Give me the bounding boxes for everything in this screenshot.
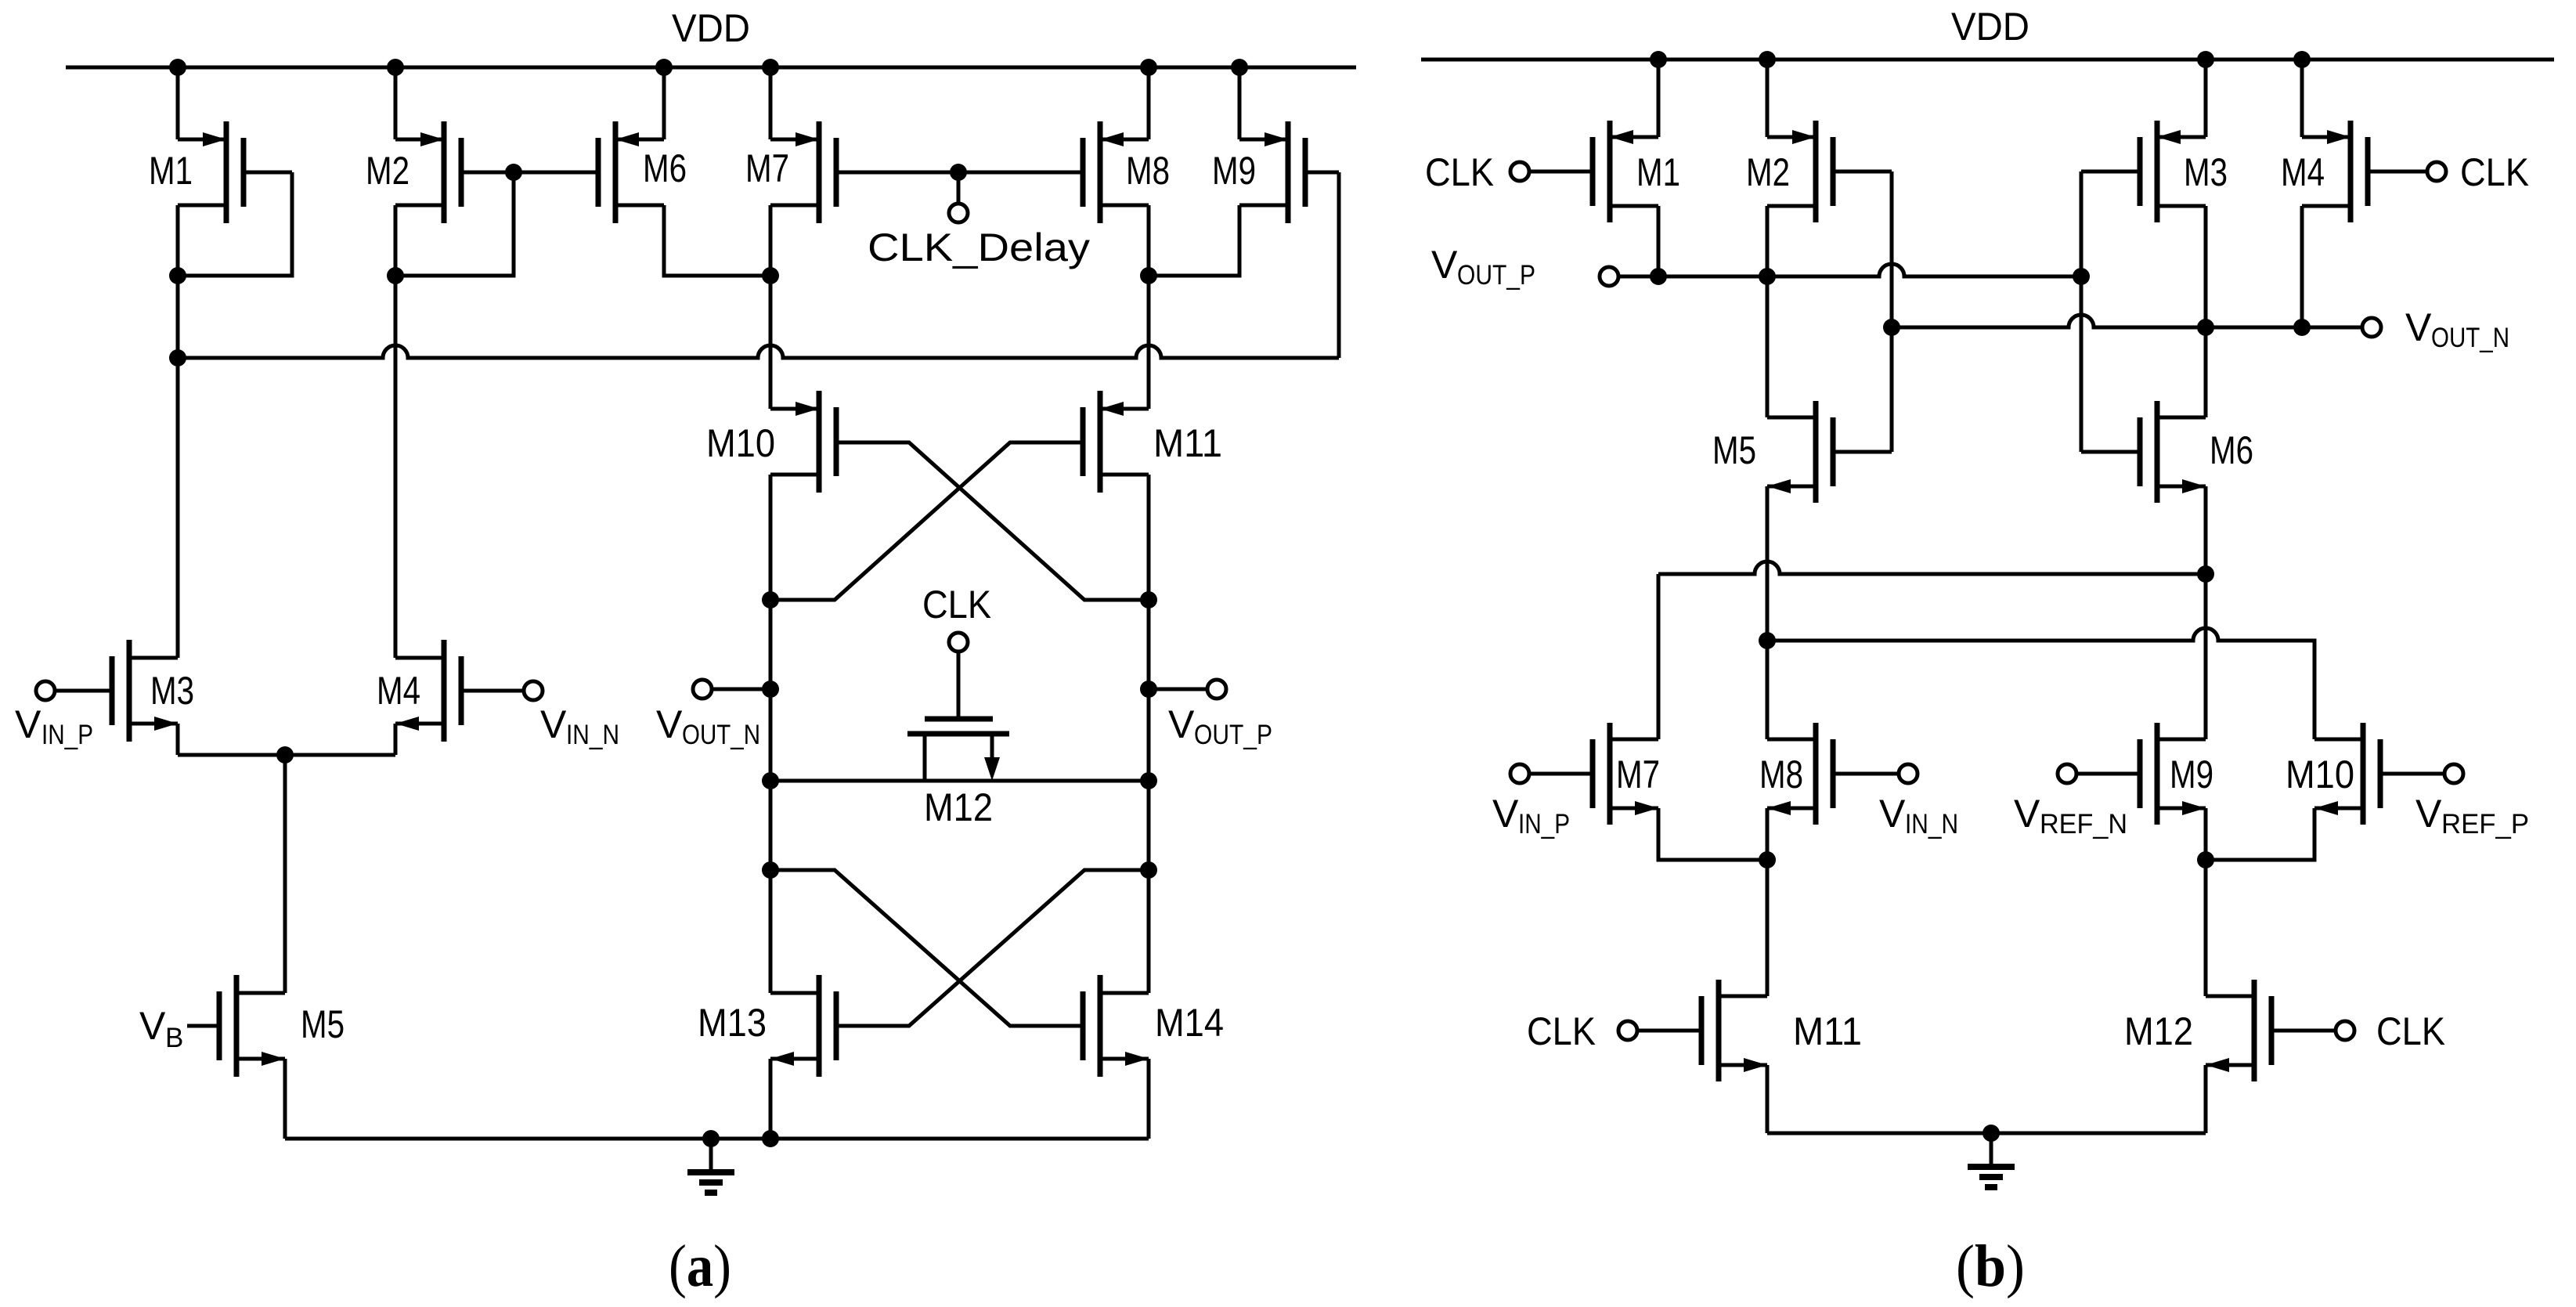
wire M8 gate lead (b): [1833, 772, 1899, 776]
wire M9 source (b): [2204, 808, 2208, 860]
wire M14 source: [1147, 1059, 1151, 1139]
transistor M14 (a) NMOS: [1083, 975, 1149, 1077]
transistor M3 (b) PMOS: [2140, 121, 2206, 222]
svg-text:CLK: CLK: [1425, 150, 1494, 194]
svg-text:M10: M10: [2286, 753, 2354, 796]
junction VDD/M8 (a): [1140, 59, 1157, 76]
junction ground tap (a): [702, 1130, 720, 1147]
wire M4 gate lead: [461, 689, 524, 693]
wire VDD to M6 source (a): [662, 67, 666, 139]
junction M2 drain (a): [387, 267, 404, 284]
svg-text:M8: M8: [1126, 149, 1170, 193]
label VOUT_N (b): [2405, 305, 2509, 353]
junction VDD/M4 (b): [2293, 51, 2311, 68]
svg-text:V: V: [1431, 243, 1458, 287]
label VIN_P (a): [15, 702, 93, 750]
junction M6/M7 drain (a): [762, 267, 779, 284]
svg-text:M3: M3: [2184, 150, 2228, 194]
terminal VIN_N (a): [524, 681, 543, 700]
wire M11 source (b): [1766, 1065, 1770, 1133]
wire M2 drain (b): [1766, 206, 1770, 276]
svg-text:IN_N: IN_N: [1905, 809, 1958, 839]
wire M3 drain to bus: [176, 358, 180, 658]
junction M2 drain/VOUT_P (b): [1759, 268, 1776, 285]
wire VDD to M7 source (a): [769, 67, 773, 139]
svg-text:M5: M5: [301, 1002, 345, 1046]
svg-text:M8: M8: [1759, 753, 1803, 796]
junction VDD/M1 (b): [1650, 51, 1667, 68]
wire M1 drain to bus: [176, 276, 180, 358]
wire M13 gate cross-couple: [836, 870, 1149, 1026]
transistor M10 (a) PMOS: [770, 391, 836, 493]
wire VDD rail (a): [66, 66, 1356, 70]
svg-text:M1: M1: [149, 149, 193, 193]
terminal VIN_N (b): [1899, 764, 1918, 783]
wire M6 gate lead: [514, 171, 598, 175]
wire ground rail (a): [285, 1137, 1149, 1141]
svg-text:VDD: VDD: [1951, 5, 2029, 49]
wire M5 source to M8 drain (b): [1766, 486, 1770, 739]
transistor M9 (b) NMOS: [2140, 723, 2206, 825]
junction tail2 (b): [2197, 851, 2214, 868]
junction M4 drain/VOUT_N (b): [2293, 319, 2311, 336]
svg-text:REF_P: REF_P: [2441, 809, 2529, 839]
wire M9 gate to bus: [1337, 172, 1341, 358]
svg-text:REF_N: REF_N: [2040, 809, 2127, 839]
junction VDD/M2 (a): [387, 59, 404, 76]
wire M6 source to M9 drain (b): [2204, 486, 2208, 739]
transistor M7 (a) PMOS: [770, 121, 836, 223]
junction bus/M1 column (a): [169, 349, 186, 366]
junction M8/M9 drain (a): [1140, 267, 1157, 284]
wire M5 drain: [283, 755, 287, 993]
wire M1 drain: [176, 205, 180, 276]
junction VDD/M7 (a): [762, 59, 779, 76]
wire M2 drain: [394, 205, 398, 276]
wire M10 gate cross-couple: [836, 442, 1149, 600]
svg-text:OUT_P: OUT_P: [1194, 720, 1272, 750]
svg-text:OUT_N: OUT_N: [682, 720, 760, 750]
terminal VREF_P (b): [2444, 764, 2463, 783]
terminal CLK M11 (b): [1618, 1021, 1637, 1040]
terminal VIN_P (a): [36, 681, 55, 700]
transistor M6 (a) PMOS: [598, 121, 664, 223]
terminal CLK M4 (b): [2427, 162, 2446, 181]
transistor M6 (b) NMOS: [2140, 401, 2206, 503]
svg-text:CLK: CLK: [2376, 1009, 2445, 1053]
junction M13 source/ground (a): [762, 1130, 779, 1147]
ground symbol (a): [687, 1139, 734, 1193]
svg-text:OUT_N: OUT_N: [2431, 323, 2509, 353]
wire M12 rail (a): [770, 779, 1149, 783]
transistor M12 (a) NMOS equalizer: [907, 719, 1009, 781]
wire M1 gate-drain diode tie: [178, 172, 292, 276]
wire Di+ line M7 drain to M6 source (b): [1658, 561, 2206, 574]
terminal VREF_N (b): [2058, 764, 2076, 783]
transistor M8 (a) PMOS: [1083, 121, 1149, 223]
svg-text:V: V: [15, 702, 41, 746]
wire M3 gate lead: [55, 689, 112, 693]
wire M4 source to tail: [394, 724, 398, 755]
svg-text:(b): (b): [1956, 1233, 2025, 1299]
wire VOUT_N net (b): [1892, 315, 2362, 327]
wire VDD to M1 source (a): [176, 67, 180, 139]
svg-text:IN_N: IN_N: [566, 720, 619, 750]
junction M11 drain latch node: [1140, 591, 1157, 608]
svg-text:M9: M9: [2170, 753, 2213, 796]
svg-text:IN_P: IN_P: [1518, 809, 1570, 839]
wire M1 gate lead (b): [1529, 170, 1593, 174]
label VOUT_N (a): [656, 702, 760, 750]
label VIN_N (a): [540, 702, 619, 750]
wire M12 gate lead (b): [2271, 1029, 2336, 1033]
transistor M1 (b) PMOS: [1593, 121, 1658, 222]
wire M9 drain: [1149, 205, 1239, 276]
transistor M1 (a) PMOS: [178, 121, 244, 223]
junction VOUT_N (a): [762, 681, 779, 698]
transistor M10 (b) NMOS: [2314, 723, 2380, 825]
wire M4 gate lead (b): [2368, 170, 2427, 174]
svg-text:M7: M7: [745, 146, 789, 190]
svg-text:M2: M2: [366, 149, 409, 193]
wire VOUT_P net (b): [1618, 264, 2081, 276]
wire M1 drain (b): [1657, 206, 1661, 276]
svg-text:V: V: [2014, 792, 2040, 836]
svg-text:(a): (a): [669, 1233, 731, 1299]
svg-text:M14: M14: [1155, 1001, 1224, 1045]
junction VOUT_P/M3-M6 gates (b): [2073, 268, 2090, 285]
junction CLK_Delay tap: [950, 164, 967, 181]
terminal CLK M12 (b): [2336, 1021, 2354, 1040]
wire M7/M8 gate tie: [836, 171, 1083, 175]
wire VOUT_P tap (a): [1149, 688, 1207, 691]
wire tail1 to M11 drain (b): [1766, 860, 1770, 996]
wire VOUT_N tap (a): [712, 688, 770, 691]
wire VOUT_P column (a): [1147, 600, 1151, 993]
wire VDD to M8 source (a): [1147, 67, 1151, 139]
wire M6 drain: [664, 205, 770, 276]
wire CLK stem (a): [957, 652, 961, 719]
wire M2 gate lead (b): [1833, 170, 1892, 174]
wire M3 drain (b): [2204, 206, 2208, 327]
junction M1 drain (a): [169, 267, 186, 284]
svg-text:M5: M5: [1712, 428, 1756, 472]
junction ground tap (b): [1983, 1125, 2000, 1142]
junction VDD/M1 (a): [169, 59, 186, 76]
wire M9 gate lead: [1305, 171, 1339, 175]
wire VDD to M2 source (b): [1766, 60, 1770, 137]
svg-text:V: V: [139, 1004, 166, 1048]
wire M4 drain (b): [2300, 206, 2304, 327]
wire M8 drain to M11 source: [1147, 276, 1151, 409]
wire M1 gate lead: [245, 171, 292, 175]
svg-text:M3: M3: [150, 669, 194, 713]
svg-text:V: V: [1492, 792, 1519, 836]
svg-text:M7: M7: [1616, 753, 1660, 796]
wire M12 source (b): [2204, 1065, 2208, 1133]
wire M2/M6 gate to M2 drain: [395, 172, 514, 276]
wire M7 drain (b): [1657, 574, 1661, 739]
wire M2 gate lead: [463, 171, 514, 175]
wire M5 source: [283, 1059, 287, 1139]
junction M5 source/Di- (b): [1759, 632, 1776, 649]
wire tail net (a): [178, 753, 395, 757]
terminal CLK_Delay: [949, 204, 968, 222]
ground symbol (b): [1968, 1133, 2015, 1187]
junction M3 drain/VOUT_N (b): [2197, 319, 2214, 336]
wire VDD rail (b): [1421, 58, 2554, 62]
junction M6 source/Di+ (b): [2197, 565, 2214, 583]
transistor M11 (b) NMOS: [1701, 980, 1767, 1081]
wire M5 gate lead: [187, 1024, 219, 1028]
transistor M4 (a) NMOS: [395, 640, 461, 742]
svg-text:M11: M11: [1153, 421, 1222, 465]
terminal VIN_P (b): [1510, 764, 1529, 783]
transistor M7 (b) NMOS: [1593, 723, 1658, 825]
label VREF_P (b): [2415, 792, 2529, 839]
label VOUT_P (b): [1431, 243, 1535, 291]
transistor M9 (a) PMOS: [1239, 121, 1305, 223]
wire tail2 to M12 drain (b): [2204, 860, 2208, 996]
transistor M3 (a) NMOS: [112, 640, 178, 742]
wire M3 gate to VOUT_P and M6 gate (b): [2080, 171, 2084, 452]
svg-text:M1: M1: [1636, 150, 1680, 194]
junction M1 drain/VOUT_P (b): [1650, 268, 1667, 285]
wire M5 gate lead (b): [1833, 450, 1892, 454]
svg-text:CLK: CLK: [2460, 150, 2529, 194]
junction VDD/M6 (a): [655, 59, 673, 76]
svg-text:V: V: [1879, 792, 1906, 836]
wire M7 drain to M10 source: [769, 276, 773, 409]
wire M6 gate lead (b): [2081, 450, 2140, 454]
wire VDD to M2 source (a): [394, 67, 398, 139]
wire M11 drain: [1147, 475, 1151, 600]
svg-text:V: V: [2405, 305, 2432, 349]
wire M11 gate lead (b): [1637, 1029, 1701, 1033]
svg-text:M6: M6: [2210, 428, 2253, 472]
terminal VOUT_N (b): [2362, 318, 2381, 337]
transistor M13 (a) NMOS: [770, 975, 836, 1077]
wire Di- line M5 source to M10 drain (b): [1767, 628, 2314, 739]
label VIN_P (b): [1492, 792, 1570, 839]
junction M12 right (a): [1140, 772, 1157, 789]
svg-text:CLK_Delay: CLK_Delay: [868, 226, 1090, 269]
wire M13 source: [769, 1059, 773, 1139]
junction M14 drain latch node: [1140, 861, 1157, 879]
junction VDD/M3 (b): [2197, 51, 2214, 68]
wire M7 source to tail1 (b): [1658, 808, 1767, 860]
wire M7 gate lead (b): [1529, 772, 1593, 776]
wire VDD to M1 source (b): [1657, 60, 1661, 137]
svg-text:M6: M6: [643, 146, 687, 190]
transistor M4 (b) PMOS: [2302, 121, 2368, 222]
terminal CLK M1 (b): [1510, 162, 1529, 181]
transistor M2 (a) PMOS: [395, 121, 461, 223]
transistor M8 (b) NMOS: [1767, 723, 1833, 825]
wire M5 gate to VOUT_N (b): [1890, 327, 1894, 452]
label VIN_N (b): [1879, 792, 1958, 839]
svg-text:M4: M4: [377, 669, 420, 713]
wire CLK_Delay stem: [957, 172, 961, 204]
svg-text:M4: M4: [2281, 150, 2325, 194]
svg-text:M9: M9: [1212, 149, 1256, 193]
svg-text:M13: M13: [698, 1001, 767, 1045]
junction tail/M5 drain (a): [276, 746, 294, 764]
transistor M5 (b) NMOS: [1767, 401, 1833, 503]
svg-text:B: B: [165, 1023, 183, 1053]
wire M10 source to tail2 (b): [2206, 808, 2314, 860]
svg-text:V: V: [656, 702, 683, 746]
svg-text:CLK: CLK: [922, 583, 991, 626]
svg-text:V: V: [2415, 792, 2442, 836]
wire M10 gate lead (b): [2380, 772, 2444, 776]
wire M11 gate cross-couple: [770, 442, 1083, 600]
terminal VOUT_P (b): [1600, 267, 1618, 286]
junction VDD/M9 (a): [1231, 59, 1248, 76]
label VREF_N (b): [2014, 792, 2127, 839]
wire M7 drain: [769, 205, 773, 276]
junction M12 left (a): [762, 772, 779, 789]
transistor M5 (a) NMOS: [219, 975, 285, 1077]
svg-text:M12: M12: [2124, 1009, 2193, 1053]
wire M5 drain (b): [1766, 276, 1770, 417]
svg-text:M11: M11: [1793, 1009, 1862, 1053]
label VB (a): [139, 1004, 183, 1053]
wire VDD to M4 source (b): [2300, 60, 2304, 137]
terminal VOUT_P (a): [1207, 680, 1226, 699]
wire bus net (a): [178, 345, 1339, 358]
svg-text:V: V: [1168, 702, 1195, 746]
svg-text:CLK: CLK: [1527, 1009, 1596, 1053]
svg-text:M2: M2: [1746, 150, 1790, 194]
wire M3 source to tail: [176, 724, 180, 755]
junction tail1 (b): [1759, 851, 1776, 868]
wire M9 gate lead (b): [2076, 772, 2140, 776]
wire VOUT_N column (a): [769, 600, 773, 993]
wire VDD to M9 source (a): [1238, 67, 1242, 139]
terminal VOUT_N (a): [693, 680, 712, 699]
wire M6 drain (b): [2204, 327, 2208, 417]
transistor M11 (a) PMOS: [1083, 391, 1149, 493]
svg-text:IN_P: IN_P: [41, 720, 93, 750]
transistor M2 (b) PMOS: [1767, 121, 1833, 222]
junction VOUT_P (a): [1140, 681, 1157, 698]
svg-text:M12: M12: [924, 785, 993, 829]
junction VDD/M2 (b): [1759, 51, 1776, 68]
svg-text:VDD: VDD: [672, 6, 750, 50]
junction M13 drain latch node: [762, 861, 779, 879]
terminal CLK (a): [949, 633, 968, 652]
wire M8 drain: [1147, 205, 1151, 276]
wire M14 gate cross-couple: [770, 870, 1083, 1026]
wire M2 gate to VOUT_N (b): [1890, 171, 1894, 327]
svg-text:V: V: [540, 702, 567, 746]
wire M2 drain to M4 drain: [394, 276, 398, 658]
junction M2/M6 gate (a): [505, 164, 522, 181]
svg-text:M10: M10: [706, 421, 775, 465]
svg-text:OUT_P: OUT_P: [1457, 260, 1535, 291]
wire ground rail (b): [1767, 1132, 2206, 1136]
wire M8 source (b): [1766, 808, 1770, 860]
wire M3 gate lead (b): [2081, 170, 2140, 174]
transistor M12 (b) NMOS: [2206, 980, 2271, 1081]
wire VDD to M3 source (b): [2204, 60, 2208, 137]
junction VOUT_N/M2-M5 gates (b): [1883, 319, 1900, 336]
junction M10 drain latch node: [762, 591, 779, 608]
wire M10 drain: [769, 475, 773, 600]
label VOUT_P (a): [1168, 702, 1272, 750]
